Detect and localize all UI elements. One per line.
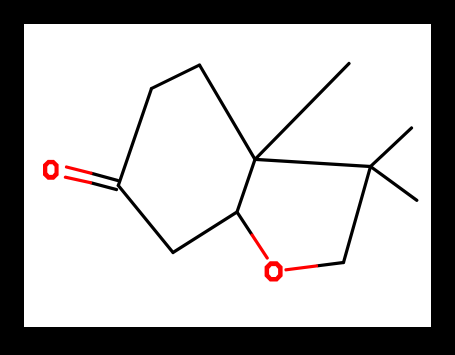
- ketone C=O double bond upper line black half: [91, 173, 118, 180]
- bond C8-Me2: [371, 167, 417, 201]
- oxygen O1 ketone label (red ring octagon): [43, 160, 59, 180]
- bond C3-C4: [200, 65, 256, 159]
- bond C4-C5: [237, 159, 255, 212]
- bond C5-O2 red half: [252, 235, 267, 258]
- bond C4-C8: [255, 159, 371, 166]
- ketone C=O double bond lower line red half: [65, 177, 90, 183]
- white drawing area: [24, 24, 431, 327]
- bond C8-Me1: [371, 128, 412, 167]
- bond C4-C9 methyl: [255, 64, 349, 160]
- bond C7-O2 black half: [317, 263, 344, 266]
- ketone C=O double bond lower line black half: [91, 183, 117, 190]
- bond C5-O2 black half: [237, 212, 252, 235]
- ketone C=O double bond upper line red half: [67, 167, 92, 173]
- bond C8-C7: [344, 167, 371, 263]
- bond C7-O2 red half: [286, 266, 317, 270]
- bond C5-C6: [173, 212, 237, 253]
- bond C2-C3: [152, 65, 200, 89]
- bond C6-C1: [118, 186, 173, 253]
- oxygen O2 furan label (red ring octagon): [265, 261, 283, 281]
- bond C1-C2: [118, 89, 151, 186]
